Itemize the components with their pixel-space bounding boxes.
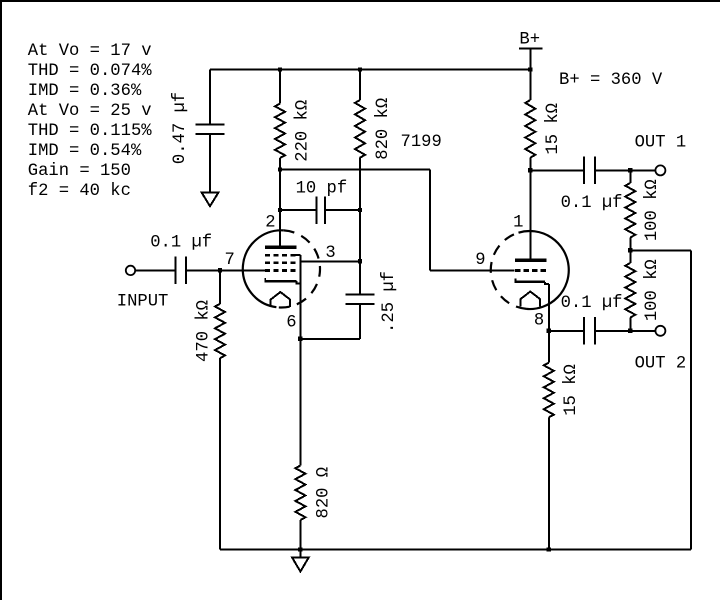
- wire C3 bottom to cathode line: [300, 338, 360, 340]
- node OUT1 / 100k divider top: [628, 168, 632, 172]
- svg-text:0.1 µf: 0.1 µf: [561, 194, 623, 213]
- node pentode plate / 220k bottom: [278, 167, 282, 171]
- OUT 2 terminal: [655, 326, 665, 336]
- svg-text:At Vo = 17 v: At Vo = 17 v: [28, 42, 152, 61]
- INPUT terminal: [126, 266, 135, 275]
- svg-text:THD = 0.074%: THD = 0.074%: [28, 62, 152, 81]
- pentode cathode bar: [265, 278, 301, 284]
- node top rail / 820k: [358, 67, 362, 71]
- svg-text:0.47 µf: 0.47 µf: [171, 92, 190, 164]
- svg-text:820 Ω: 820 Ω: [315, 467, 334, 519]
- resistor R2 820 kOhm: [355, 70, 365, 294]
- svg-text:IMD = 0.36%: IMD = 0.36%: [28, 82, 142, 101]
- svg-text:IMD = 0.54%: IMD = 0.54%: [28, 142, 142, 161]
- node cathode / C3 junction: [298, 337, 302, 341]
- pentode plate lead pin 2: [279, 210, 281, 246]
- svg-text:7199: 7199: [401, 133, 442, 152]
- capacitor C1 0.47 uf top lead: [209, 70, 211, 124]
- node top rail / 220k: [278, 67, 282, 71]
- svg-text:INPUT: INPUT: [117, 293, 169, 312]
- node divider midpoint: [628, 248, 632, 252]
- svg-text:OUT 2: OUT 2: [635, 354, 687, 373]
- wire pentode plate to triode grid horizontal: [280, 169, 430, 171]
- resistor R6 100 kOhm upper: [625, 170, 635, 250]
- capacitor C2 10 pf right lead: [326, 209, 360, 211]
- svg-text:470 kΩ: 470 kΩ: [195, 300, 214, 362]
- resistor R7 100 kOhm lower: [625, 250, 635, 330]
- node grid / 470k junction: [218, 268, 222, 272]
- triode grid row: [515, 269, 546, 272]
- resistor R4 820 Ohm: [295, 339, 305, 550]
- OUT 1 terminal: [655, 165, 665, 175]
- ground symbol at C1: [202, 193, 219, 207]
- svg-text:B+: B+: [519, 31, 540, 50]
- svg-text:220 kΩ: 220 kΩ: [294, 100, 313, 162]
- pentode heater: [271, 292, 291, 307]
- wire OUT2 node to C6: [549, 330, 583, 332]
- pentode V1A envelope solid arc: [243, 230, 284, 307]
- svg-text:15 kΩ: 15 kΩ: [562, 364, 581, 416]
- wire coupling vertical: [429, 170, 431, 271]
- svg-text:0.1 µf: 0.1 µf: [561, 294, 623, 313]
- wire OUT1 node to C5: [530, 169, 583, 171]
- svg-text:9: 9: [475, 251, 485, 270]
- pentode grid row 1 suppressor: [265, 254, 296, 257]
- wire feedback vertical down: [690, 250, 692, 549]
- svg-text:.25 µf: .25 µf: [380, 271, 399, 333]
- wire input terminal to C4: [135, 269, 174, 271]
- capacitor C3 0.25 uf plates: [346, 295, 375, 305]
- wire C4 to pentode grid pin 7: [187, 269, 265, 271]
- capacitor C1 0.47 uf plates: [196, 125, 225, 135]
- svg-text:0.1 µf: 0.1 µf: [150, 233, 212, 252]
- svg-text:820 kΩ: 820 kΩ: [374, 98, 393, 160]
- svg-text:7: 7: [225, 251, 235, 270]
- pentode plate bar: [265, 246, 297, 249]
- wire C6 to OUT2 terminal: [596, 330, 656, 332]
- svg-text:Gain = 150: Gain = 150: [28, 162, 131, 181]
- svg-text:2: 2: [265, 213, 275, 232]
- pentode internal vertical connection: [299, 255, 301, 339]
- capacitor C2 10 pf plates: [317, 196, 325, 224]
- svg-text:10 pf: 10 pf: [296, 179, 348, 198]
- node bottom rail / 820 Ohm: [298, 547, 302, 551]
- capacitor C6 0.1 uf plates: [584, 317, 595, 345]
- svg-text:THD = 0.115%: THD = 0.115%: [28, 122, 152, 141]
- triode heater: [521, 292, 541, 307]
- page border left edge: [0, 0, 2, 600]
- svg-text:3: 3: [325, 244, 335, 263]
- wire screen grid to node: [300, 260, 360, 262]
- wire divider midpoint feedback right: [630, 249, 691, 251]
- capacitor C4 0.1 uf plates: [176, 257, 187, 285]
- node top rail / B+: [528, 67, 532, 71]
- svg-text:1: 1: [513, 214, 523, 233]
- resistor R5 15 kOhm plate load: [525, 70, 535, 171]
- capacitor C1 0.47 uf bottom lead: [209, 135, 211, 193]
- wire to triode grid pin 9: [430, 269, 515, 271]
- resistor R1 220 kOhm: [275, 70, 285, 246]
- svg-text:100 kΩ: 100 kΩ: [643, 179, 662, 241]
- triode plate lead pin 1: [529, 170, 531, 258]
- ground stub at bottom rail: [299, 550, 301, 558]
- svg-text:OUT 1: OUT 1: [635, 134, 687, 153]
- svg-text:15 kΩ: 15 kΩ: [544, 103, 563, 155]
- svg-text:At Vo = 25 v: At Vo = 25 v: [28, 102, 152, 121]
- pentode V1A envelope dashed arc: [276, 230, 320, 307]
- capacitor C3 bottom lead: [359, 304, 361, 339]
- capacitor C5 0.1 uf plates: [584, 157, 595, 185]
- node cathode pin 8 / OUT2: [547, 329, 551, 333]
- svg-text:B+ = 360 V: B+ = 360 V: [559, 71, 663, 90]
- node 10pf left: [278, 208, 282, 212]
- triode V1B envelope solid arc: [519, 231, 569, 309]
- node screen grid pin 3: [358, 259, 362, 263]
- page border top edge: [0, 0, 720, 2]
- triode cathode lead to pin 8 node: [548, 284, 550, 331]
- capacitor C2 10 pf left lead: [280, 209, 316, 211]
- node bottom rail / 15k cathode resistor: [547, 547, 551, 551]
- node 10pf right: [358, 208, 362, 212]
- pentode grid row 2 screen: [265, 261, 296, 264]
- wire top supply rail: [210, 69, 530, 71]
- resistor R3 470 kOhm: [215, 270, 225, 549]
- pentode internal suppressor stub: [296, 254, 301, 256]
- triode cathode bar: [515, 279, 549, 285]
- svg-text:6: 6: [286, 313, 296, 332]
- B+ supply symbol: [519, 49, 542, 70]
- node triode plate / OUT1: [528, 168, 532, 172]
- svg-text:f2 = 40 kc: f2 = 40 kc: [28, 182, 131, 201]
- svg-text:100 kΩ: 100 kΩ: [643, 259, 662, 321]
- resistor R8 15 kOhm cathode: [544, 331, 554, 550]
- svg-text:8: 8: [534, 311, 544, 330]
- pentode grid row 3 control grid: [265, 269, 296, 272]
- ground symbol at bottom rail: [292, 558, 308, 572]
- triode plate bar: [515, 259, 547, 262]
- wire bottom rail: [220, 549, 691, 551]
- triode V1B envelope dashed arc: [491, 233, 527, 309]
- node OUT2 / 100k divider bottom: [628, 329, 632, 333]
- wire C5 to OUT1 terminal: [596, 169, 656, 171]
